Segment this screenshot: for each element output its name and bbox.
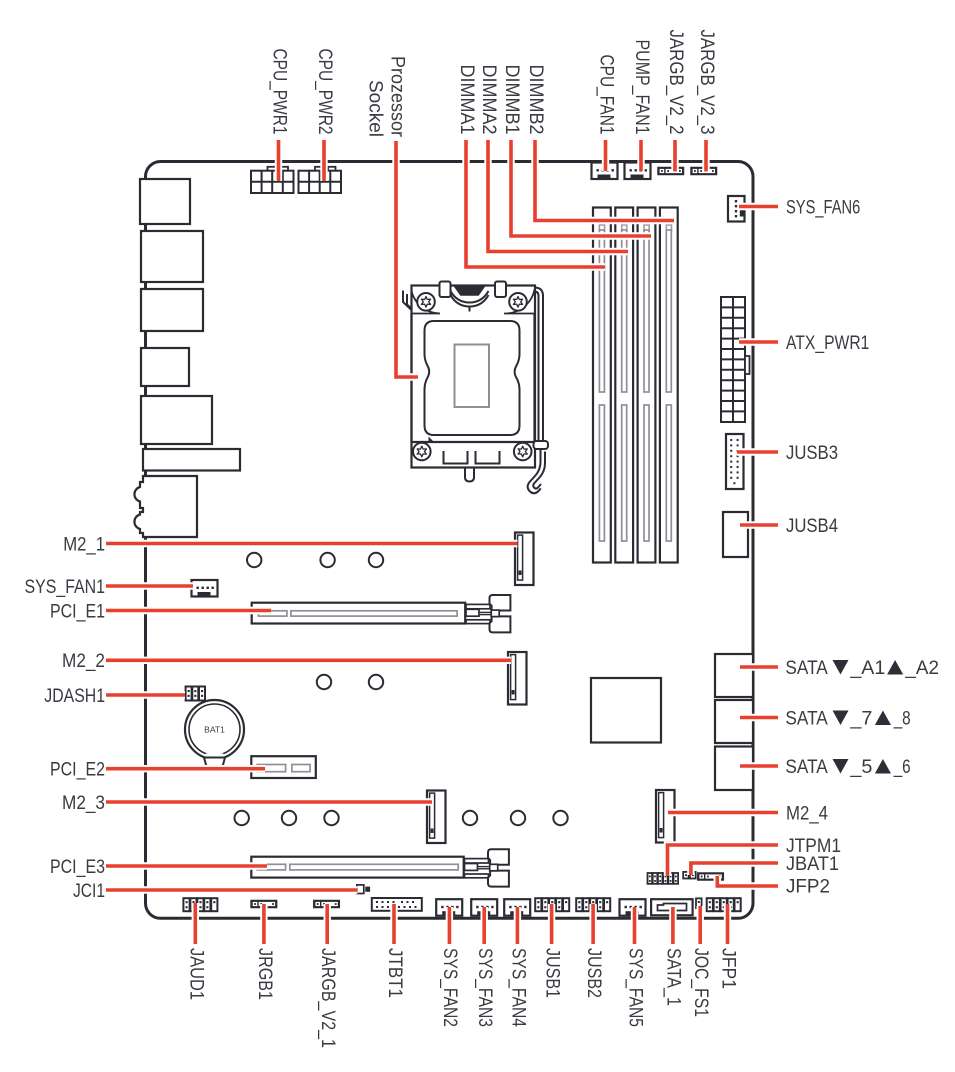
svg-text:JUSB2: JUSB2 xyxy=(583,948,604,998)
triangle down row3 xyxy=(833,759,849,774)
svg-text:Prozessor: Prozessor xyxy=(387,56,408,138)
socket lever xyxy=(539,295,544,443)
svg-text:BAT1: BAT1 xyxy=(204,725,225,735)
M2_1 slot xyxy=(515,533,534,586)
socket latch tab left xyxy=(440,282,451,298)
svg-text:CPU_PWR1: CPU_PWR1 xyxy=(269,49,290,135)
SYS_FAN5 connector xyxy=(620,899,646,916)
JTPM1 connector xyxy=(648,873,679,884)
svg-text:JARGB_V2_2: JARGB_V2_2 xyxy=(665,30,686,135)
svg-text:JCI1: JCI1 xyxy=(73,881,105,902)
JUSB1 connector xyxy=(535,898,569,911)
socket screw top-left xyxy=(417,293,435,311)
PCI_E3 latch xyxy=(465,849,509,886)
svg-text:SYS_FAN1: SYS_FAN1 xyxy=(25,577,106,598)
SYS_FAN4 connector xyxy=(504,899,530,916)
rear I/O block 4 xyxy=(141,348,189,386)
JBAT1 connector xyxy=(683,872,696,879)
JAUD1 connector xyxy=(183,898,217,911)
ATX_PWR1 connector xyxy=(721,297,750,422)
SYS_FAN6 connector xyxy=(728,196,745,222)
svg-text:M2_4: M2_4 xyxy=(786,803,828,824)
JUSB3 connector xyxy=(726,434,744,489)
mounting hole xyxy=(463,811,477,825)
mounting hole xyxy=(369,553,383,567)
rear I/O block 6 xyxy=(143,449,240,471)
triangle down row2 xyxy=(833,711,849,726)
svg-text:JARGB_V2_1: JARGB_V2_1 xyxy=(317,948,338,1048)
mounting hole xyxy=(324,811,338,825)
SYS_FAN2 connector xyxy=(436,899,462,916)
svg-text:JUSB3: JUSB3 xyxy=(786,443,838,464)
socket body xyxy=(412,314,535,443)
svg-text:JBAT1: JBAT1 xyxy=(786,854,839,875)
svg-text:SYS_FAN4: SYS_FAN4 xyxy=(507,948,528,1027)
socket top-left plate xyxy=(412,292,441,314)
JARGB_V2_3 connector xyxy=(691,168,717,175)
PCI_E3 slot xyxy=(251,857,463,878)
mounting hole xyxy=(369,675,383,689)
wire casing group xyxy=(106,140,778,944)
socket outer bracket xyxy=(412,286,536,468)
SATA _5 _6 connector xyxy=(715,747,753,791)
socket lever hook xyxy=(534,441,549,449)
SATA_1 connector xyxy=(651,899,693,915)
socket IHS blob xyxy=(425,321,520,435)
JARGB_V2_1 connector xyxy=(314,901,340,908)
svg-text:JARGB_V2_3: JARGB_V2_3 xyxy=(696,30,717,135)
rear I/O block 1 xyxy=(140,179,190,224)
svg-text:SYS_FAN3: SYS_FAN3 xyxy=(474,948,495,1027)
svg-text:JUSB1: JUSB1 xyxy=(542,948,563,998)
svg-text:_6: _6 xyxy=(893,757,911,778)
M2_4 slot xyxy=(656,790,675,843)
svg-text:SATA: SATA xyxy=(785,708,828,729)
JDASH1 connector xyxy=(186,687,205,701)
svg-text:M2_3: M2_3 xyxy=(62,793,105,814)
mounting hole xyxy=(320,553,334,567)
triangle down row1 xyxy=(833,660,849,675)
M2_2 slot xyxy=(508,652,527,705)
motherboard outline xyxy=(146,162,754,919)
svg-text:DIMMB1: DIMMB1 xyxy=(501,65,522,135)
PCI_E1 latch xyxy=(466,595,510,632)
JTBT1 connector xyxy=(372,898,422,911)
CPU_FAN1 connector xyxy=(592,163,618,180)
svg-text:PCI_E2: PCI_E2 xyxy=(50,760,105,781)
SYS_FAN3 connector xyxy=(471,899,497,916)
DIMMA1 slot xyxy=(593,208,611,563)
CPU_PWR1 connector xyxy=(251,167,294,193)
JCI1 connector xyxy=(357,885,370,894)
svg-text:SATA: SATA xyxy=(785,757,828,778)
JOC_FS1 connector xyxy=(696,898,702,908)
svg-text:SYS_FAN2: SYS_FAN2 xyxy=(439,948,460,1027)
socket screw bottom-left xyxy=(413,443,431,461)
PCI_E2 slot xyxy=(251,756,315,778)
rear I/O block 5 xyxy=(141,396,212,444)
JFP1 connector xyxy=(707,898,741,911)
socket center pad xyxy=(455,345,490,408)
CPU_PWR2 connector xyxy=(299,167,342,193)
mounting hole xyxy=(282,811,296,825)
JUSB2 connector xyxy=(576,898,610,911)
JARGB_V2_2 connector xyxy=(658,168,684,175)
svg-text:DIMMB2: DIMMB2 xyxy=(525,65,546,135)
DIMMB2 slot xyxy=(660,208,678,563)
PCI_E1 slot xyxy=(252,603,466,624)
svg-text:PCI_E1: PCI_E1 xyxy=(50,601,105,622)
mounting hole xyxy=(317,675,331,689)
svg-text:M2_2: M2_2 xyxy=(62,651,105,672)
svg-text:JAUD1: JAUD1 xyxy=(185,948,206,1000)
svg-text:Sockel: Sockel xyxy=(364,80,385,137)
svg-text:CPU_FAN1: CPU_FAN1 xyxy=(596,55,617,135)
svg-text:ATX_PWR1: ATX_PWR1 xyxy=(786,333,869,354)
socket pin1 triangle xyxy=(429,437,436,444)
socket screw bottom-right xyxy=(514,443,532,461)
rear I/O block 3 xyxy=(141,289,203,331)
svg-text:SYS_FAN5: SYS_FAN5 xyxy=(625,948,646,1027)
svg-text:JTBT1: JTBT1 xyxy=(384,948,405,998)
socket left flange xyxy=(403,291,412,311)
triangle up row3 xyxy=(875,759,891,774)
SYS_FAN1 connector xyxy=(192,580,218,597)
socket bottom tab left xyxy=(444,451,468,464)
chipset heatsink xyxy=(591,678,661,743)
svg-text:_7: _7 xyxy=(849,708,872,729)
svg-text:SATA: SATA xyxy=(785,658,828,679)
PUMP_FAN1 connector xyxy=(625,163,651,180)
svg-text:DIMMA1: DIMMA1 xyxy=(456,65,477,135)
svg-text:JFP1: JFP1 xyxy=(718,948,739,989)
svg-text:DIMMA2: DIMMA2 xyxy=(478,65,499,135)
JFP2 connector xyxy=(698,873,724,880)
svg-text:SYS_FAN6: SYS_FAN6 xyxy=(786,197,860,218)
svg-text:JRGB1: JRGB1 xyxy=(254,948,275,1000)
svg-text:_A1: _A1 xyxy=(849,658,885,679)
battery BAT1 xyxy=(185,700,244,769)
SATA _A1 _A2 connector xyxy=(715,654,753,697)
DIMMB1 slot xyxy=(638,208,656,563)
M2_3 slot xyxy=(427,791,446,844)
triangle up row2 xyxy=(875,711,891,726)
triangle up row1 xyxy=(887,660,903,675)
socket dark lens xyxy=(455,286,484,295)
svg-text:_8: _8 xyxy=(893,708,911,729)
rear I/O block 2 xyxy=(141,231,203,282)
label SATA triangles xyxy=(833,660,904,774)
mounting hole xyxy=(235,811,249,825)
svg-text:M2_1: M2_1 xyxy=(63,534,105,555)
socket latch tab right xyxy=(495,282,506,298)
rear I/O audio block xyxy=(134,476,197,537)
socket bottom tab right xyxy=(476,451,500,464)
svg-text:JOC_FS1: JOC_FS1 xyxy=(690,948,711,1017)
svg-text:JUSB4: JUSB4 xyxy=(786,516,838,537)
JUSB4 connector xyxy=(723,512,748,557)
socket top-right plate xyxy=(504,290,535,314)
SATA _7 _8 connector xyxy=(715,700,753,743)
mounting hole xyxy=(511,811,525,825)
socket screw top-right xyxy=(509,293,527,311)
svg-text:PCI_E3: PCI_E3 xyxy=(50,857,105,878)
wire red group xyxy=(106,140,778,944)
mounting hole xyxy=(247,553,261,567)
CPU socket U1 xyxy=(403,282,548,494)
svg-text:SATA_1: SATA_1 xyxy=(663,948,684,1006)
DIMMA2 slot xyxy=(615,208,633,563)
svg-text:_5: _5 xyxy=(849,757,872,778)
svg-text:_A2: _A2 xyxy=(904,658,939,679)
mounting hole xyxy=(553,811,567,825)
svg-text:JDASH1: JDASH1 xyxy=(44,686,105,707)
JRGB1 connector xyxy=(251,901,277,908)
svg-text:CPU_PWR2: CPU_PWR2 xyxy=(314,49,335,135)
socket bottom U channel xyxy=(465,468,474,482)
svg-text:PUMP_FAN1: PUMP_FAN1 xyxy=(631,40,652,135)
svg-text:JFP2: JFP2 xyxy=(786,876,830,897)
socket handle arc xyxy=(451,291,489,303)
